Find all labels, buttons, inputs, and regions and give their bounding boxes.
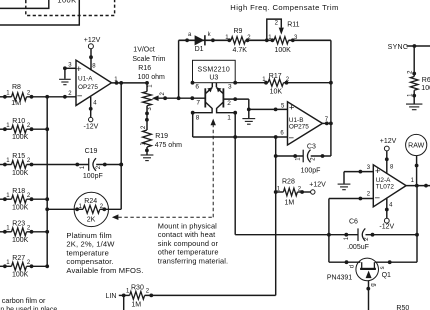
- svg-text:compensator.: compensator.: [66, 257, 113, 266]
- svg-text:other temperature: other temperature: [158, 248, 219, 257]
- svg-text:100K: 100K: [12, 237, 29, 244]
- svg-text:D1: D1: [195, 46, 204, 53]
- svg-text:.005uF: .005uF: [347, 244, 369, 251]
- svg-text:+12V: +12V: [309, 181, 326, 188]
- svg-text:1M: 1M: [11, 100, 21, 107]
- svg-text:2: 2: [311, 157, 317, 161]
- svg-text:1: 1: [6, 193, 10, 199]
- svg-text:2: 2: [367, 192, 371, 198]
- svg-text:d: d: [350, 265, 356, 268]
- svg-text:1: 1: [148, 84, 154, 88]
- svg-text:−: −: [77, 91, 83, 102]
- svg-text:475 ohm: 475 ohm: [155, 142, 182, 149]
- svg-text:R23: R23: [12, 220, 25, 227]
- svg-text:10K: 10K: [270, 89, 283, 96]
- svg-text:RAW: RAW: [408, 143, 424, 150]
- svg-text:U1-A: U1-A: [78, 75, 93, 82]
- svg-text:Mount in physical: Mount in physical: [158, 221, 217, 230]
- svg-text:100K: 100K: [12, 134, 29, 141]
- svg-text:1: 1: [344, 236, 350, 240]
- svg-text:1: 1: [227, 114, 231, 121]
- svg-text:transferring material.: transferring material.: [158, 257, 228, 266]
- svg-text:4: 4: [389, 203, 393, 209]
- svg-text:C3: C3: [307, 143, 316, 150]
- svg-text:LIN: LIN: [106, 293, 117, 300]
- svg-text:−: −: [375, 193, 381, 204]
- svg-text:6: 6: [280, 131, 284, 137]
- svg-text:a: a: [188, 32, 192, 38]
- svg-text:R8: R8: [12, 84, 21, 91]
- svg-text:2K: 2K: [87, 217, 96, 224]
- svg-text:R18: R18: [12, 188, 25, 195]
- svg-text:Available from MFOS.: Available from MFOS.: [66, 266, 143, 275]
- svg-text:+12V: +12V: [84, 37, 101, 44]
- svg-text:SSM2210: SSM2210: [198, 67, 231, 74]
- svg-text:100 ohm: 100 ohm: [138, 74, 165, 81]
- svg-text:C19: C19: [85, 148, 98, 155]
- svg-text:R15: R15: [12, 153, 25, 160]
- svg-text:C6: C6: [349, 219, 358, 226]
- svg-text:+12V: +12V: [380, 138, 397, 145]
- svg-text:-12V: -12V: [84, 124, 99, 131]
- svg-text:100pF: 100pF: [83, 173, 103, 180]
- svg-text:+: +: [375, 166, 381, 177]
- svg-text:1: 1: [6, 91, 10, 97]
- svg-text:R11: R11: [287, 22, 299, 29]
- svg-text:2: 2: [275, 21, 279, 27]
- svg-text:R6: R6: [422, 77, 430, 84]
- svg-text:4: 4: [93, 101, 97, 107]
- svg-text:8: 8: [390, 165, 394, 171]
- svg-text:8: 8: [196, 114, 200, 121]
- svg-text:R24: R24: [84, 198, 97, 205]
- svg-text:1: 1: [6, 158, 10, 164]
- svg-text:5: 5: [281, 103, 285, 109]
- svg-text:100pF: 100pF: [301, 167, 321, 174]
- svg-text:carbon film or: carbon film or: [2, 296, 46, 305]
- svg-text:an be used in place: an be used in place: [0, 307, 57, 310]
- svg-text:s: s: [380, 266, 386, 269]
- svg-text:3: 3: [228, 84, 232, 91]
- svg-text:1: 1: [6, 226, 10, 232]
- svg-text:1: 1: [126, 288, 130, 294]
- svg-text:2: 2: [364, 237, 370, 241]
- svg-text:3: 3: [367, 165, 371, 171]
- svg-text:temperature: temperature: [66, 248, 109, 257]
- svg-text:−: −: [289, 133, 295, 144]
- svg-text:1: 1: [80, 165, 86, 169]
- svg-text:R17: R17: [269, 73, 282, 80]
- svg-text:100K: 100K: [275, 47, 292, 54]
- svg-text:100K: 100K: [12, 170, 29, 177]
- svg-text:+: +: [289, 103, 295, 114]
- svg-text:1: 1: [408, 93, 414, 97]
- svg-text:High Freq. Compensate Trim: High Freq. Compensate Trim: [230, 3, 338, 12]
- svg-text:-12V: -12V: [379, 223, 394, 230]
- svg-text:7: 7: [196, 100, 200, 107]
- svg-text:Q1: Q1: [382, 272, 391, 279]
- svg-text:1: 1: [411, 178, 415, 184]
- svg-text:R50: R50: [396, 305, 409, 310]
- svg-text:8: 8: [92, 64, 96, 70]
- svg-text:1M: 1M: [131, 302, 141, 309]
- svg-text:R16: R16: [138, 65, 151, 72]
- svg-text:PN4391: PN4391: [327, 274, 352, 281]
- svg-text:3: 3: [68, 62, 72, 68]
- svg-text:OP275: OP275: [78, 84, 98, 91]
- svg-text:2: 2: [96, 165, 102, 169]
- svg-text:R19: R19: [155, 133, 168, 140]
- svg-text:R9: R9: [234, 28, 243, 35]
- svg-text:R10: R10: [12, 118, 25, 125]
- svg-text:2: 2: [227, 100, 231, 107]
- svg-text:100K: 100K: [421, 85, 430, 92]
- svg-text:100K: 100K: [57, 0, 76, 4]
- svg-text:1: 1: [6, 123, 10, 129]
- svg-text:1V/Oct: 1V/Oct: [133, 47, 154, 54]
- svg-text:k: k: [208, 32, 212, 38]
- svg-text:R27: R27: [12, 255, 25, 262]
- svg-text:R30: R30: [131, 284, 144, 291]
- svg-text:R28: R28: [282, 178, 295, 185]
- svg-text:1: 1: [6, 260, 10, 266]
- svg-text:2: 2: [141, 125, 147, 129]
- svg-text:1M: 1M: [285, 200, 295, 207]
- svg-text:7: 7: [325, 117, 329, 123]
- svg-text:contact with heat: contact with heat: [158, 230, 216, 239]
- svg-text:Platinum film: Platinum film: [66, 231, 111, 240]
- svg-text:100K: 100K: [12, 205, 29, 212]
- svg-text:2K, 2%, 1/4W: 2K, 2%, 1/4W: [66, 240, 115, 249]
- svg-text:2: 2: [160, 92, 166, 96]
- svg-text:+: +: [76, 64, 82, 75]
- svg-text:sink compound or: sink compound or: [158, 239, 219, 248]
- svg-text:2: 2: [408, 70, 414, 74]
- svg-text:6: 6: [195, 84, 199, 91]
- svg-text:2: 2: [146, 288, 150, 294]
- svg-text:U3: U3: [209, 74, 218, 81]
- svg-text:SYNC: SYNC: [388, 44, 409, 51]
- svg-text:2: 2: [68, 91, 72, 97]
- svg-text:OP275: OP275: [289, 124, 309, 131]
- svg-text:g: g: [370, 283, 376, 286]
- svg-text:TL072: TL072: [376, 184, 395, 191]
- svg-text:Scale Trim: Scale Trim: [132, 56, 165, 63]
- svg-text:100K: 100K: [12, 272, 29, 279]
- svg-text:4.7K: 4.7K: [233, 47, 248, 54]
